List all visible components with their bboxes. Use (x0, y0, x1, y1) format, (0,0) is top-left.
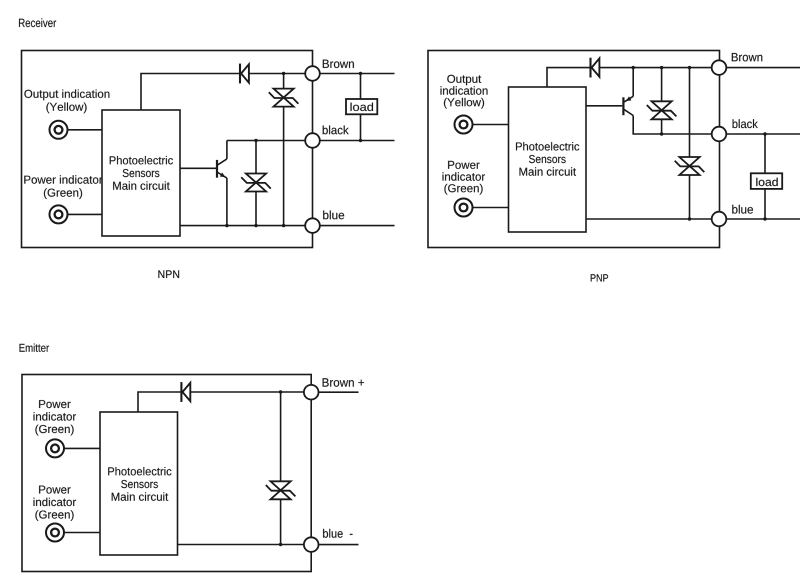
TVS diode Z1 (269, 89, 299, 107)
wire D2 to Brown node PNP (599, 67, 712, 69)
wire blue external (Emitter) (318, 544, 358, 546)
wire TVS3 top lead (661, 68, 663, 102)
TVS diode Z5 (266, 481, 296, 499)
junction TVS4 on blue wire (688, 217, 691, 220)
wire black to load (PNP) (764, 134, 766, 173)
wire main circuit to diode D1 (141, 74, 240, 111)
wire Brown external (Emitter) (318, 391, 358, 393)
wire black external (NPN) (320, 140, 395, 142)
junction load top (PNP) (763, 132, 766, 135)
wire green LED to main circuit PNP (473, 207, 509, 209)
label load (PNP) (756, 178, 777, 186)
node Brown (NPN) (305, 66, 320, 81)
wire load to black (NPN) (360, 114, 362, 140)
wire TVS5 top lead (280, 392, 282, 481)
label black (PNP) (733, 119, 758, 128)
junction TVS4 on brown wire (688, 66, 691, 69)
junction TVS2 on blue wire (254, 224, 257, 227)
node blue (PNP) (712, 212, 727, 227)
junction load top (NPN) (359, 72, 362, 75)
wire blue external (PNP) (726, 218, 800, 220)
label Photoelectric Sensors Main circuit (NPN) (110, 156, 173, 190)
indicator LED yellow PNP (455, 116, 473, 134)
wire TVS2 top lead (255, 141, 257, 174)
wire emitter of Q1 to blue (226, 178, 228, 226)
wire black external (PNP) (726, 133, 800, 135)
wire main circuit to diode D3 (138, 392, 181, 412)
label load (NPN) (351, 103, 374, 111)
label Brown (PNP) (732, 53, 763, 61)
label Photoelectric Sensors Main circuit (PNP) (516, 142, 579, 176)
node black (PNP) (712, 127, 727, 142)
TVS diode Z2 (241, 174, 271, 192)
wire collector to black node (227, 140, 306, 142)
diode D1 (240, 64, 249, 84)
wire base of Q2 (586, 105, 622, 107)
node blue (Emitter) (304, 537, 319, 552)
wire blue external (NPN) (320, 225, 395, 227)
label Power indicator (Green) (24, 175, 102, 199)
transistor Q1 NPN (217, 159, 227, 178)
wire TVS3 bottom lead (661, 119, 663, 134)
indicator LED green (50, 205, 68, 223)
node Brown (PNP) (712, 60, 727, 75)
label Output indication (Yellow) PNP (441, 75, 488, 109)
junction TVS3 on brown wire (660, 66, 663, 69)
junction TVS2 top (254, 139, 257, 142)
label Brown (NPN) (323, 60, 354, 68)
label Receiver (19, 18, 56, 27)
junction TVS3 on black wire (660, 132, 663, 135)
label Photoelectric Sensors Main circuit (Emitter) (108, 467, 171, 501)
wire D1 to Brown node (249, 73, 306, 75)
wire TVS2 bottom lead (255, 192, 257, 226)
wire TVS1 to blue wire (283, 107, 285, 226)
wire TVS5 bottom lead (280, 499, 282, 544)
wire TVS4 top lead (689, 68, 691, 157)
label Brown + (Emitter) (323, 378, 364, 386)
junction TVS5 on brown wire (279, 390, 282, 393)
label PNP (591, 274, 608, 281)
wire brown to load (NPN) (360, 74, 362, 100)
diode D3 (181, 382, 190, 402)
label Output indication (Yellow) (24, 90, 109, 114)
wire Brown external (PNP) (726, 67, 800, 69)
transistor Q2 PNP (623, 96, 633, 115)
wire base of Q1 (180, 167, 216, 169)
NPN sensor outline box (22, 51, 313, 248)
load resistor (NPN) (346, 99, 377, 114)
indicator LED green emitter 1 (46, 439, 64, 457)
junction emitter on brown wire (632, 66, 635, 69)
label Power indicator (Green) PNP (443, 161, 486, 195)
wire blue (Emitter) (178, 544, 305, 546)
PNP sensor outline box (428, 51, 720, 248)
indicator LED green PNP (455, 199, 473, 217)
NPN main circuit box (102, 110, 180, 236)
node Brown (Emitter) (304, 385, 319, 400)
wire emitter of Q2 to brown (632, 68, 634, 97)
wire collector of Q2 to black node (633, 116, 712, 135)
label black (NPN) (323, 126, 349, 135)
indicator LED yellow (50, 121, 68, 139)
load resistor (PNP) (751, 173, 782, 189)
wire blue (NPN) (180, 225, 306, 227)
indicator LED green emitter 2 (46, 524, 64, 542)
label NPN (158, 270, 179, 278)
wire collector vertical of Q1 (226, 141, 228, 159)
wire TVS4 bottom lead (689, 175, 691, 219)
junction TVS1 on blue wire (282, 224, 285, 227)
TVS diode Z3 (647, 101, 677, 119)
Emitter main circuit box (100, 412, 178, 555)
wire blue (PNP) (586, 218, 712, 220)
TVS diode Z4 (675, 157, 705, 175)
wire Brown external (NPN) (320, 73, 395, 75)
junction emitter on blue wire (225, 224, 228, 227)
label Emitter (20, 344, 50, 352)
junction load bottom (NPN) (359, 139, 362, 142)
label blue (PNP) (732, 205, 753, 214)
node blue (NPN) (305, 218, 320, 233)
wire main circuit to diode D2 (547, 68, 591, 87)
wire D3 to Brown node emitter (190, 391, 304, 393)
label Power indicator (Green) emitter 2 (34, 486, 77, 521)
wire green LED to main circuit (68, 213, 103, 215)
diode D2 (591, 58, 600, 78)
Emitter sensor outline box (22, 375, 311, 572)
label Power indicator (Green) emitter 1 (34, 400, 77, 435)
wire yellow LED to main circuit (68, 129, 103, 131)
wire LED2 to main circuit emitter (64, 532, 100, 534)
wire load to blue (PNP) (764, 189, 766, 219)
wire brown junction to TVS1 (283, 74, 285, 89)
junction load bottom (PNP) (763, 217, 766, 220)
label blue - (Emitter) (323, 529, 352, 538)
label blue (NPN) (323, 211, 344, 220)
wire LED1 to main circuit emitter (64, 447, 100, 449)
junction TVS5 on blue wire (279, 543, 282, 546)
junction TVS1 on brown wire (282, 72, 285, 75)
PNP main circuit box (509, 87, 587, 232)
node black (NPN) (305, 133, 320, 148)
wire yellow LED to main circuit PNP (473, 124, 509, 126)
